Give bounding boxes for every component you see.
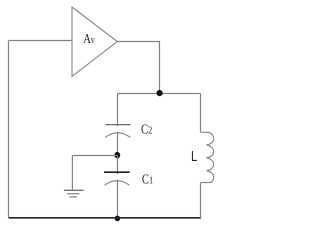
svg-text:C1: C1 — [142, 171, 153, 187]
wire: output down to top node — [159, 41, 161, 94]
wire: down to C2 — [117, 94, 119, 127]
node: bottom junction dot — [115, 216, 121, 222]
wire: top node horizontal right to L branch — [160, 93, 200, 95]
svg-text:C2: C2 — [141, 121, 152, 137]
wire: top node horizontal left to C2 branch — [118, 93, 161, 95]
wire: amplifier output horizontal — [117, 41, 160, 43]
wire: left feedback vertical — [8, 41, 10, 218]
wire: bottom horizontal (dark) — [9, 217, 202, 219]
node: top junction dot — [157, 90, 163, 96]
wire: down to ground — [71, 156, 73, 191]
ground — [64, 190, 84, 197]
wire: right vertical bottom (inductor to bottom wire) — [200, 183, 202, 218]
op-amp Av triangle — [72, 7, 117, 76]
wire: C2 to mid node — [117, 132, 119, 156]
svg-text:Av: Av — [83, 31, 95, 47]
svg-text:L: L — [191, 148, 197, 165]
wire: C1 down to bottom node — [117, 180, 119, 218]
wire: mid node left toward ground — [72, 155, 117, 157]
capacitor C2 — [105, 125, 130, 138]
node: mid junction dot — [114, 152, 120, 158]
inductor L — [201, 132, 214, 182]
wire: mid node down to C1 — [117, 155, 119, 174]
capacitor C1 — [104, 172, 130, 185]
wire: input horizontal to amplifier — [9, 40, 73, 42]
wire: right vertical top (node to inductor) — [200, 94, 202, 133]
